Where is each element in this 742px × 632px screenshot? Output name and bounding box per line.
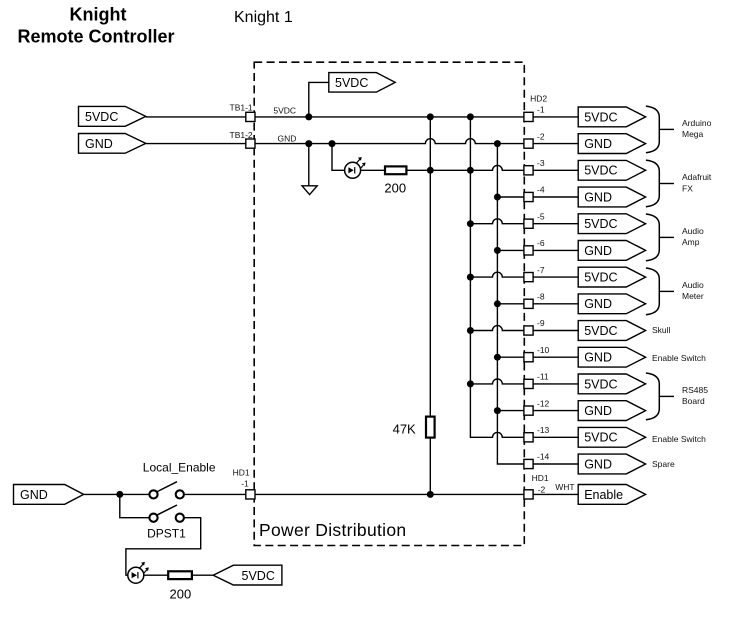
svg-text:-7: -7 bbox=[537, 265, 545, 275]
svg-text:Audio: Audio bbox=[682, 280, 704, 290]
svg-text:WHT: WHT bbox=[555, 482, 574, 492]
svg-text:-1: -1 bbox=[537, 105, 545, 115]
wire GND flag to switch bbox=[84, 493, 149, 495]
junction LED drop bbox=[329, 140, 336, 147]
svg-text:-14: -14 bbox=[537, 452, 550, 462]
wire pin -1 to flag bbox=[533, 116, 578, 118]
output flag 5VDC row -13 bbox=[578, 427, 645, 447]
svg-text:5VDC: 5VDC bbox=[584, 271, 617, 285]
svg-text:GND: GND bbox=[584, 351, 612, 365]
wire row -12 from GND bus bbox=[497, 410, 524, 412]
pin HD2-8 bbox=[524, 299, 533, 308]
wire pin -13 to flag bbox=[533, 436, 578, 438]
svg-text:Arduino: Arduino bbox=[682, 118, 712, 128]
svg-text:Enable Switch: Enable Switch bbox=[652, 353, 706, 363]
wire resistor to 5VDC flag bbox=[192, 574, 213, 576]
brace group Audio Amp bbox=[646, 214, 659, 261]
switch DPST1 pole 2 bbox=[149, 505, 184, 522]
output flag GND row -2 bbox=[578, 134, 645, 154]
svg-text:GND: GND bbox=[584, 404, 612, 418]
junction A top on 5VDC line bbox=[427, 113, 434, 120]
svg-text:TB1-1: TB1-1 bbox=[230, 103, 253, 113]
svg-text:Amp: Amp bbox=[682, 237, 700, 247]
svg-text:-2: -2 bbox=[538, 484, 546, 494]
svg-text:5VDC: 5VDC bbox=[584, 324, 617, 338]
net flag 5VDC (top inside box) bbox=[329, 73, 395, 93]
wire row -9 from 5VDC bus bbox=[470, 326, 524, 331]
svg-text:GND: GND bbox=[20, 488, 48, 502]
wire row -10 from GND bus bbox=[497, 356, 524, 358]
input flag 5VDC bbox=[79, 106, 146, 126]
junction B row -9 bbox=[467, 327, 474, 334]
svg-text:Remote Controller: Remote Controller bbox=[17, 27, 174, 47]
svg-text:-9: -9 bbox=[537, 318, 545, 328]
pin HD2-2 bbox=[524, 139, 533, 148]
svg-text:-5: -5 bbox=[537, 211, 545, 221]
wire pin -6 to flag bbox=[533, 249, 578, 251]
svg-text:-8: -8 bbox=[537, 292, 545, 302]
svg-text:5VDC: 5VDC bbox=[335, 76, 368, 90]
svg-text:-11: -11 bbox=[537, 372, 549, 382]
pin HD2-1 bbox=[524, 112, 533, 121]
junction B row -7 bbox=[467, 274, 474, 281]
junction switch split bbox=[116, 491, 123, 498]
svg-text:GND: GND bbox=[584, 190, 612, 204]
junction row3 at bus B bbox=[467, 167, 474, 174]
wire GND input to TB1-2 bbox=[146, 143, 246, 145]
svg-text:-1: -1 bbox=[241, 478, 249, 488]
svg-text:Adafruit: Adafruit bbox=[682, 172, 712, 182]
junction row3 at bus A bbox=[427, 167, 434, 174]
wire 5VDC input to TB1-1 bbox=[146, 116, 246, 118]
wire pin -12 to flag bbox=[533, 410, 578, 412]
wire HD1-2 to Enable flag bbox=[533, 493, 578, 495]
svg-text:5VDC: 5VDC bbox=[584, 431, 617, 445]
wire row -7 from 5VDC bus bbox=[470, 272, 524, 277]
output flag GND row -14 bbox=[578, 454, 645, 474]
resistor 200 (top) bbox=[385, 166, 406, 174]
svg-text:HD1: HD1 bbox=[532, 473, 549, 483]
wire row -4 from GND bus bbox=[497, 196, 524, 198]
wire GND to LED D1 bbox=[332, 144, 345, 171]
wire row -8 from GND bus bbox=[497, 303, 524, 305]
svg-text:Knight 1: Knight 1 bbox=[234, 9, 293, 26]
svg-text:GND: GND bbox=[85, 137, 113, 151]
ground symbol bbox=[302, 186, 317, 195]
svg-text:Skull: Skull bbox=[652, 325, 671, 335]
brace group RS485 Board bbox=[646, 373, 659, 420]
wire pin -9 to flag bbox=[533, 330, 578, 332]
wire pin -2 to flag bbox=[533, 143, 578, 145]
wire LED D2 to resistor bbox=[144, 574, 168, 576]
input flag GND (bottom left) bbox=[14, 485, 84, 505]
wire pole1 to HD1-1 bbox=[184, 493, 246, 495]
brace group Audio Meter bbox=[646, 268, 659, 315]
wire to ground symbol bbox=[308, 144, 310, 186]
wire vertical bus C (GND bus) with row -14 run bbox=[497, 144, 524, 464]
junction C row -6 bbox=[494, 247, 501, 254]
svg-text:GND: GND bbox=[584, 244, 612, 258]
wire pin -8 to flag bbox=[533, 303, 578, 305]
svg-text:-4: -4 bbox=[537, 185, 545, 195]
svg-text:Enable Switch: Enable Switch bbox=[652, 434, 706, 444]
svg-text:5VDC: 5VDC bbox=[273, 105, 296, 115]
svg-text:5VDC: 5VDC bbox=[242, 569, 275, 583]
resistor 47K bbox=[426, 417, 435, 438]
svg-text:-6: -6 bbox=[537, 238, 545, 248]
switch DPST1 pole 1 bbox=[149, 482, 184, 499]
output flag 5VDC row -3 bbox=[578, 160, 645, 180]
svg-text:GND: GND bbox=[584, 457, 612, 471]
output flag 5VDC row -9 bbox=[578, 321, 645, 341]
svg-text:Power Distribution: Power Distribution bbox=[259, 520, 406, 540]
svg-text:5VDC: 5VDC bbox=[85, 110, 118, 124]
resistor 200 (bottom) bbox=[168, 571, 192, 579]
wire LED to resistor 200 bbox=[361, 169, 385, 171]
svg-text:HD2: HD2 bbox=[530, 94, 547, 104]
output flag GND row -12 bbox=[578, 401, 645, 421]
output flag GND row -6 bbox=[578, 241, 645, 261]
output flag 5VDC row -7 bbox=[578, 267, 645, 287]
wire to pole 2 bbox=[120, 494, 149, 517]
pin HD2-3 bbox=[524, 166, 533, 175]
svg-text:-10: -10 bbox=[537, 345, 550, 355]
wire row -6 from GND bus bbox=[497, 249, 524, 251]
svg-text:5VDC: 5VDC bbox=[584, 164, 617, 178]
junction 5VDC flag drop bbox=[305, 113, 312, 120]
svg-text:Board: Board bbox=[682, 396, 705, 406]
wire row -11 from 5VDC bus bbox=[470, 379, 524, 384]
svg-text:Audio: Audio bbox=[682, 226, 704, 236]
junction 47K on enable line bbox=[427, 491, 434, 498]
pin HD2-4 bbox=[524, 192, 533, 201]
output flag GND row -4 bbox=[578, 187, 645, 207]
wire vertical bus A (5VDC to 47K) bbox=[429, 117, 431, 417]
svg-text:FX: FX bbox=[682, 183, 693, 193]
wire vertical bus B (5VDC bus) with row -13 run bbox=[470, 117, 524, 437]
power distribution dashed boundary box bbox=[254, 62, 524, 545]
output flag Enable bbox=[578, 485, 645, 505]
svg-text:GND: GND bbox=[584, 137, 612, 151]
LED D2 bbox=[128, 562, 149, 583]
output flag GND row -10 bbox=[578, 347, 645, 367]
pin HD2-11 bbox=[524, 379, 533, 388]
junction C row -12 bbox=[494, 407, 501, 414]
output flag 5VDC row -5 bbox=[578, 214, 645, 234]
terminal TB1-2 bbox=[246, 139, 255, 148]
pin HD2-14 bbox=[524, 459, 533, 468]
pin HD2-7 bbox=[524, 273, 533, 282]
svg-text:200: 200 bbox=[384, 181, 406, 196]
junction B top on 5VDC line bbox=[467, 113, 474, 120]
connector HD1 pin 1 bbox=[246, 490, 255, 499]
wire 47K to enable line bbox=[429, 438, 431, 495]
junction B row -11 bbox=[467, 380, 474, 387]
svg-text:GND: GND bbox=[584, 297, 612, 311]
wire net 5VDC horizontal bbox=[255, 116, 524, 118]
wire resistor to pin -3 with hop over GND bus bbox=[406, 165, 524, 170]
connector HD1 pin 2 bbox=[524, 490, 533, 499]
output flag GND row -8 bbox=[578, 294, 645, 314]
pin HD2-9 bbox=[524, 326, 533, 335]
pin HD2-12 bbox=[524, 406, 533, 415]
svg-text:200: 200 bbox=[170, 587, 192, 602]
terminal TB1-1 bbox=[246, 112, 255, 121]
junction ground drop bbox=[305, 140, 312, 147]
svg-text:Mega: Mega bbox=[682, 129, 704, 139]
svg-text:Meter: Meter bbox=[682, 291, 704, 301]
svg-text:-12: -12 bbox=[537, 398, 550, 408]
svg-text:HD1: HD1 bbox=[233, 468, 250, 478]
wire pin -11 to flag bbox=[533, 383, 578, 385]
svg-text:5VDC: 5VDC bbox=[584, 217, 617, 231]
pin HD2-10 bbox=[524, 353, 533, 362]
wire pin -5 to flag bbox=[533, 223, 578, 225]
svg-text:RS485: RS485 bbox=[682, 385, 708, 395]
svg-text:DPST1: DPST1 bbox=[147, 527, 186, 541]
junction C row -4 bbox=[494, 194, 501, 201]
wire pin -14 to flag bbox=[533, 463, 578, 465]
svg-text:Knight: Knight bbox=[70, 5, 127, 25]
brace group Arduino Mega bbox=[646, 106, 659, 153]
wire net GND horizontal with hops bbox=[255, 139, 524, 144]
wire pin -4 to flag bbox=[533, 196, 578, 198]
svg-text:GND: GND bbox=[278, 134, 297, 144]
svg-text:5VDC: 5VDC bbox=[584, 110, 617, 124]
junction C top on GND line bbox=[494, 140, 501, 147]
wire pin -3 to flag bbox=[533, 169, 578, 171]
wire enable line HD1-1 to HD1-2 bbox=[255, 493, 524, 495]
junction C row -8 bbox=[494, 300, 501, 307]
svg-text:47K: 47K bbox=[393, 421, 416, 436]
svg-text:5VDC: 5VDC bbox=[584, 377, 617, 391]
wire row -5 from 5VDC bus bbox=[470, 219, 524, 224]
wire pin -10 to flag bbox=[533, 356, 578, 358]
output flag 5VDC row -1 bbox=[578, 107, 645, 127]
pin HD2-6 bbox=[524, 246, 533, 255]
brace group Adafruit FX bbox=[646, 160, 659, 207]
LED D1 bbox=[345, 157, 366, 178]
junction C row -10 bbox=[494, 354, 501, 361]
wire pin -7 to flag bbox=[533, 276, 578, 278]
output flag 5VDC row -11 bbox=[578, 374, 645, 394]
svg-text:-3: -3 bbox=[537, 158, 545, 168]
pin HD2-13 bbox=[524, 433, 533, 442]
junction B row -5 bbox=[467, 220, 474, 227]
svg-text:-13: -13 bbox=[537, 425, 550, 435]
wire pole2 to LED D2 bbox=[126, 518, 201, 576]
svg-text:Local_Enable: Local_Enable bbox=[143, 461, 216, 475]
svg-text:-2: -2 bbox=[537, 131, 545, 141]
input flag GND bbox=[79, 134, 146, 154]
svg-text:Enable: Enable bbox=[584, 488, 623, 502]
flag 5VDC (bottom, left-pointing) bbox=[213, 565, 282, 585]
pin HD2-5 bbox=[524, 219, 533, 228]
wire 5VDC flag stub bbox=[309, 82, 329, 117]
svg-text:Spare: Spare bbox=[652, 459, 675, 469]
svg-text:TB1-2: TB1-2 bbox=[230, 130, 253, 140]
